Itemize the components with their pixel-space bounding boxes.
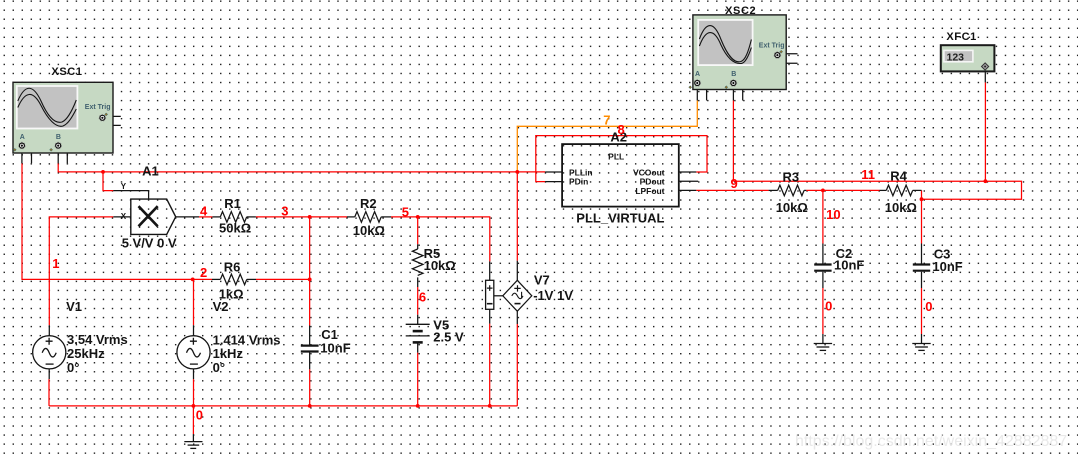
svg-text:V7: V7 [534, 273, 550, 288]
svg-text:Ext Trig: Ext Trig [85, 104, 111, 111]
svg-text:PLL: PLL [608, 151, 624, 161]
svg-text:0°: 0° [213, 360, 225, 375]
svg-text:XSC1: XSC1 [51, 66, 82, 78]
svg-text:1kHz: 1kHz [213, 346, 244, 361]
svg-text:R4: R4 [890, 169, 907, 184]
svg-text:R1: R1 [224, 196, 241, 211]
svg-text:9: 9 [731, 176, 738, 191]
svg-text:10nF: 10nF [320, 341, 350, 356]
svg-text:10kΩ: 10kΩ [424, 258, 456, 273]
svg-text:10nF: 10nF [932, 259, 962, 274]
svg-text:-1V 1V: -1V 1V [533, 288, 573, 303]
svg-text:6: 6 [419, 289, 426, 304]
svg-text:https://blog.csdn.net/weixin_4: https://blog.csdn.net/weixin_42882887 [795, 433, 1067, 450]
svg-text:10kΩ: 10kΩ [353, 223, 385, 238]
svg-text:2.5 V: 2.5 V [433, 329, 464, 344]
svg-text:PDin: PDin [569, 177, 588, 187]
svg-text:C1: C1 [321, 327, 338, 342]
svg-text:XSC2: XSC2 [725, 5, 756, 17]
svg-text:5: 5 [402, 205, 409, 220]
svg-text:XFC1: XFC1 [946, 31, 977, 43]
svg-text:10: 10 [826, 207, 840, 222]
svg-text:A1: A1 [142, 164, 159, 179]
svg-text:0: 0 [196, 408, 203, 423]
svg-text:8: 8 [618, 122, 625, 137]
svg-text:Y: Y [121, 182, 127, 191]
svg-text:0°: 0° [67, 360, 79, 375]
svg-text:A: A [695, 71, 700, 78]
svg-text:5 V/V 0 V: 5 V/V 0 V [122, 236, 177, 251]
svg-text:B: B [731, 71, 736, 78]
svg-text:B: B [56, 134, 61, 141]
svg-text:11: 11 [861, 167, 875, 182]
svg-text:V1: V1 [66, 299, 82, 314]
svg-text:R2: R2 [360, 196, 377, 211]
svg-text:LPFout: LPFout [635, 186, 664, 196]
svg-text:10kΩ: 10kΩ [885, 200, 917, 215]
svg-text:0: 0 [825, 299, 832, 314]
svg-text:A: A [20, 134, 25, 141]
svg-text:V2: V2 [213, 299, 229, 314]
svg-text:10nF: 10nF [834, 258, 864, 273]
svg-text:Ext Trig: Ext Trig [759, 43, 785, 50]
svg-text:3: 3 [281, 203, 288, 218]
svg-text:X: X [121, 212, 127, 221]
svg-text:4: 4 [200, 203, 208, 218]
svg-text:PLL_VIRTUAL: PLL_VIRTUAL [576, 211, 664, 226]
svg-text:123: 123 [947, 52, 965, 64]
svg-text:1: 1 [52, 256, 59, 271]
svg-text:3.54 Vrms: 3.54 Vrms [67, 332, 128, 347]
svg-text:50kΩ: 50kΩ [219, 221, 251, 236]
svg-text:R6: R6 [224, 259, 241, 274]
svg-text:7: 7 [603, 112, 610, 127]
svg-text:10kΩ: 10kΩ [776, 200, 808, 215]
svg-text:R3: R3 [783, 169, 800, 184]
svg-text:25kHz: 25kHz [67, 346, 105, 361]
svg-text:2: 2 [200, 265, 207, 280]
svg-text:0: 0 [925, 299, 932, 314]
